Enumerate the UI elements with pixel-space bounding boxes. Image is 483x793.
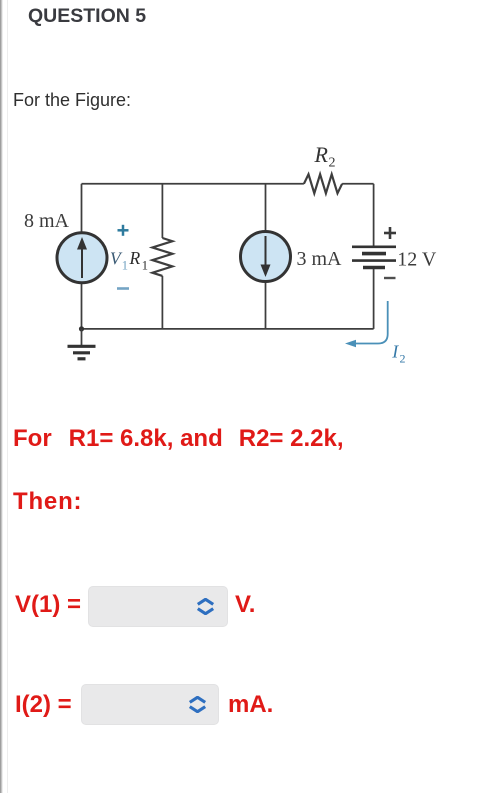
wire left vertical xyxy=(81,184,83,233)
battery V 12V xyxy=(352,246,396,249)
svg-text:1: 1 xyxy=(142,259,148,273)
spinner icon I(2) xyxy=(189,696,206,713)
text For the Figure: xyxy=(13,90,131,111)
unit mA. xyxy=(228,691,273,719)
arrow up inside source xyxy=(81,248,83,278)
red condition text xyxy=(13,425,344,453)
arrow down inside source xyxy=(265,236,267,266)
svg-text:12 V: 12 V xyxy=(397,249,437,271)
svg-text:3 mA: 3 mA xyxy=(297,248,343,270)
resistor R2 xyxy=(304,174,342,193)
plus label V1 xyxy=(118,229,129,232)
heading QUESTION 5 xyxy=(28,5,146,28)
svg-text:8 mA: 8 mA xyxy=(24,210,70,232)
label I(2) = xyxy=(15,691,72,719)
wire bottom xyxy=(82,328,374,330)
battery plus xyxy=(384,232,396,235)
wire top right xyxy=(342,183,374,185)
current source 3mA circle xyxy=(241,232,291,282)
circuit schematic xyxy=(0,140,460,380)
wire 3mA branch vertical xyxy=(265,184,267,232)
svg-text:I: I xyxy=(391,342,399,362)
battery minus xyxy=(384,277,396,279)
input box I(2) xyxy=(81,684,219,725)
wire right vertical bottom xyxy=(373,269,375,329)
svg-text:R: R xyxy=(314,142,329,167)
junction node dot xyxy=(79,326,84,331)
spinner icon V(1) xyxy=(197,598,214,615)
ground xyxy=(81,329,83,345)
unit V. xyxy=(235,591,255,619)
wire right vertical top xyxy=(373,184,375,246)
svg-text:2: 2 xyxy=(329,156,336,171)
left page border gradient xyxy=(0,0,3,793)
label V(1) = xyxy=(15,591,81,619)
faint inner border line xyxy=(7,0,8,793)
svg-text:2: 2 xyxy=(400,352,406,366)
wire middle vertical (R1 branch) xyxy=(161,184,163,238)
current arrow I2 xyxy=(352,301,388,344)
wire top (node 1 to node 2) xyxy=(82,183,304,185)
red Then: xyxy=(13,488,82,516)
current source 8mA circle xyxy=(57,233,107,283)
svg-text:R: R xyxy=(129,248,141,268)
resistor R1 xyxy=(152,238,172,276)
svg-text:1: 1 xyxy=(122,259,128,273)
minus label V1 xyxy=(117,287,129,290)
input box V(1) xyxy=(88,586,228,627)
